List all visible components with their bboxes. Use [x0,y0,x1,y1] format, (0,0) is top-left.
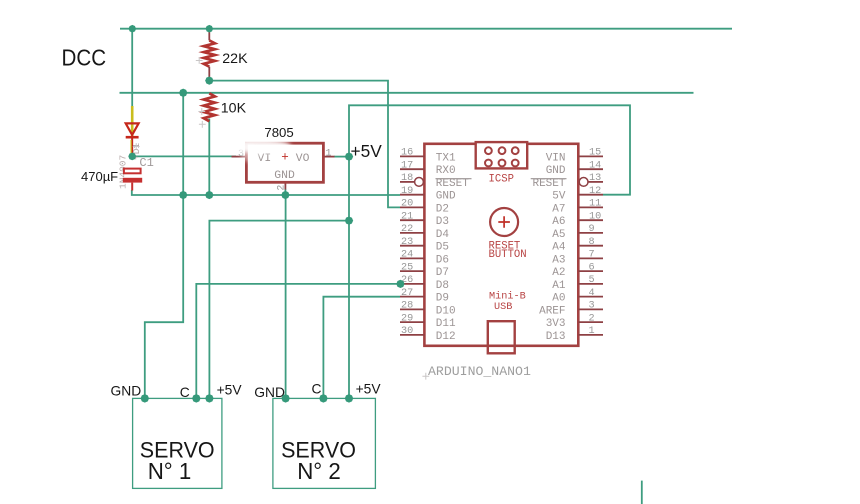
svg-text:TX1: TX1 [436,152,456,164]
svg-text:25: 25 [401,262,413,273]
wire 10K bottom to GND rail [208,119,210,196]
diode D1 1N4007 [126,123,139,134]
svg-text:16: 16 [401,148,413,159]
svg-text:10: 10 [589,211,601,222]
svg-text:+: + [281,150,289,164]
svg-text:+5V: +5V [351,141,383,161]
svg-text:DCC: DCC [62,44,107,71]
svg-text:C: C [312,382,322,397]
pin 4 A0 (right) [552,288,603,305]
svg-text:22K: 22K [222,51,248,67]
pin 12 5V (right) [552,186,603,203]
svg-text:Mini-B: Mini-B [489,291,526,303]
svg-text:20: 20 [401,199,413,210]
wire +5V node up and over to nano pin 12 (5V) [349,105,630,194]
svg-text:D13: D13 [546,331,566,343]
wire +5V node down to servo2 +5V [348,157,350,399]
svg-text:D4: D4 [436,229,450,241]
pin 24 D6 (left) [400,250,449,267]
wire DCC drop to diode [131,29,133,107]
svg-text:AREF: AREF [539,305,565,317]
svg-text:13: 13 [589,173,601,184]
pin 27 D9 (left) [400,288,449,305]
svg-text:GND: GND [436,191,456,203]
wire diode node to 7805 VI [132,155,236,157]
pin 6 A2 (right) [552,262,603,279]
wire GND rail [132,190,400,195]
svg-text:11: 11 [589,199,601,210]
pin 19 GND (left) [400,186,456,203]
junction node servo2 GND terminal [281,393,291,403]
svg-text:+5V: +5V [217,382,243,397]
svg-text:2: 2 [589,313,595,324]
svg-text:N° 2: N° 2 [297,458,341,484]
wire yellow highlight over diode lower lead [130,140,132,154]
svg-text:BUTTON: BUTTON [489,249,527,261]
pin 2 3V3 (right) [546,313,603,330]
wire servo1 GND up to GND rail [145,195,183,398]
svg-text:GND: GND [274,170,295,182]
svg-text:ARDUINO_NANO1: ARDUINO_NANO1 [428,364,531,379]
svg-text:29: 29 [401,313,413,324]
svg-text:7805: 7805 [264,125,293,140]
svg-text:RESET: RESET [436,178,469,190]
svg-text:A7: A7 [552,203,565,215]
svg-text:D5: D5 [436,242,449,254]
origin mark [196,57,203,64]
pin 7 A3 (right) [552,250,603,267]
white smudge artifact over 7805 border [225,139,291,153]
junction node servo2 +5V terminal [344,393,354,403]
pin 30 D12 (left) [400,326,456,343]
svg-text:470µF: 470µF [81,169,118,184]
svg-text:D8: D8 [436,280,449,292]
pin 21 D3 (left) [400,211,449,228]
box SERVO N 2 [273,398,376,488]
svg-text:A6: A6 [552,216,565,228]
junction node +5V rail [344,216,354,226]
svg-text:19: 19 [401,186,413,197]
origin mark [198,108,205,115]
pin 1 D13 (right) [546,326,603,343]
svg-text:22: 22 [401,224,413,235]
junction node GND rail / servo1 GND [178,190,188,200]
pin 26 D8 (left) [400,275,449,292]
wire servo2 GND up to GND rail [285,195,287,398]
capacitor C1 470uF [124,169,141,174]
svg-text:7: 7 [589,250,595,261]
svg-text:VO: VO [296,153,310,165]
pin 3 AREF (right) [539,301,603,318]
pin 9 A5 (right) [552,224,603,241]
svg-text:D9: D9 [436,293,449,305]
resistor R2 10K [204,93,215,121]
svg-text:A1: A1 [552,280,566,292]
svg-text:30: 30 [401,326,413,337]
svg-text:10K: 10K [221,101,247,117]
svg-text:A0: A0 [552,293,565,305]
pin 16 TX1 (left) [400,148,456,165]
svg-text:GND: GND [111,384,142,399]
pin 10 A6 (right) [552,211,603,228]
reset button symbol [490,208,518,236]
wire rail B drop at x=183 [182,93,184,195]
junction node diode/C1/VI [127,152,136,161]
svg-text:D6: D6 [436,254,449,266]
svg-text:A3: A3 [552,254,565,266]
svg-text:RX0: RX0 [436,165,456,177]
origin mark [422,373,429,380]
svg-text:3: 3 [589,301,595,312]
wire 7805 VO to +5V node [334,156,349,158]
pin 18 RESET (left) [400,173,472,190]
svg-text:1: 1 [589,326,595,337]
svg-text:USB: USB [494,302,512,313]
svg-text:C1: C1 [139,156,153,170]
svg-text:A4: A4 [552,242,566,254]
origin mark [199,121,206,128]
svg-text:3V3: 3V3 [546,318,566,330]
wire 7805 GND pin to rail [284,189,286,195]
pin 17 RX0 (left) [400,160,456,177]
svg-text:4: 4 [589,288,595,299]
connector ICSP header [476,142,528,168]
pin 13 RESET (right) [531,173,603,190]
svg-text:2: 2 [276,185,287,191]
junction node servo1 GND terminal [140,393,150,403]
svg-text:D3: D3 [436,216,449,228]
svg-text:D2: D2 [436,203,449,215]
svg-text:24: 24 [401,250,413,261]
pin 25 D7 (left) [400,262,449,279]
junction node GND rail / 7805 GND / servo2 GND [280,190,290,200]
svg-text:28: 28 [401,301,413,312]
pin 29 D11 (left) [400,313,456,330]
svg-text:21: 21 [401,211,413,222]
junction node DCC-A / diode branch [128,24,137,33]
wire servo1 C to nano pin 26 (D8) [196,284,400,399]
svg-text:GND: GND [254,385,285,400]
svg-text:D11: D11 [436,318,456,330]
svg-text:A5: A5 [552,229,565,241]
svg-text:5V: 5V [552,191,566,203]
pin 20 D2 (left) [400,199,449,216]
svg-text:D12: D12 [436,331,456,343]
wire DCC rail A (top) [120,28,732,30]
wire DCC rail B [120,92,694,94]
svg-text:GND: GND [546,165,566,177]
regulator U1 7805 [232,156,247,158]
svg-text:18: 18 [401,173,413,184]
wire servo2 C to nano pin 27 (D9) [323,297,400,399]
junction node +5V at VO [344,152,354,162]
svg-text:D10: D10 [436,305,456,317]
svg-text:C: C [180,385,190,400]
svg-text:+5V: +5V [356,382,382,397]
junction node servo2 C terminal [318,393,328,403]
pin 15 VIN (right) [546,148,603,165]
origin mark [133,143,140,150]
svg-text:15: 15 [589,148,601,159]
wire +5V distribution rail [209,221,349,399]
svg-text:9: 9 [589,224,595,235]
svg-text:8: 8 [589,237,595,248]
svg-text:23: 23 [401,237,413,248]
svg-text:1: 1 [326,149,332,160]
wire 22K junction to D2 pin 20 [209,81,400,208]
svg-text:VIN: VIN [546,152,566,164]
svg-text:N° 1: N° 1 [148,458,192,484]
wire highlighted segment (yellow) above diode [131,106,134,136]
svg-text:6: 6 [589,262,595,273]
pin 22 D4 (left) [400,224,449,241]
pin 23 D5 (left) [400,237,449,254]
pin 14 GND (right) [546,160,603,177]
pin 11 A7 (right) [552,199,603,216]
box SERVO N 1 [133,398,222,488]
pin 5 A1 (right) [552,275,603,292]
svg-text:RESET: RESET [532,178,565,190]
junction node R1/R2/D2 [204,76,214,86]
svg-text:D7: D7 [436,267,449,279]
wire stray segment bottom right [641,481,643,504]
connector Mini-B USB [488,321,515,353]
junction node servo1 C terminal [191,393,201,403]
junction node GND rail / R2 [204,190,214,200]
junction node DCC-B drop [178,88,188,98]
svg-text:17: 17 [401,160,413,171]
IC U2 ARDUINO_NANO1 body [424,144,578,346]
pin 28 D10 (left) [400,301,456,318]
resistor R1 22K [208,29,210,41]
svg-text:5: 5 [589,275,595,286]
junction node servo1 +5V terminal [204,393,214,403]
pin 8 A4 (right) [552,237,603,254]
junction node at nano pin 26 D8 [395,279,405,289]
svg-text:12: 12 [589,186,601,197]
svg-text:14: 14 [589,160,601,171]
junction node DCC-A / R1 [205,24,214,33]
svg-text:27: 27 [401,288,413,299]
svg-text:A2: A2 [552,267,565,279]
svg-text:ICSP: ICSP [489,173,514,185]
